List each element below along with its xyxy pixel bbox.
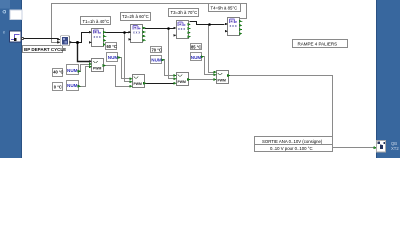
svg-text:RAMPE 4 PALIERS: RAMPE 4 PALIERS bbox=[298, 41, 338, 46]
constant block NUM1 bbox=[67, 65, 81, 75]
svg-text:SORTIE ANA 0..10V (consigne): SORTIE ANA 0..10V (consigne) bbox=[262, 139, 323, 144]
svg-text:NUM: NUM bbox=[108, 55, 119, 60]
node junction A bbox=[76, 41, 79, 44]
svg-text:40 °C: 40 °C bbox=[53, 70, 63, 75]
left input rail (blue band) bbox=[0, 0, 22, 158]
svg-text:NUM: NUM bbox=[67, 68, 78, 73]
wire NUM3 to mux2 in1 bbox=[119, 58, 132, 79]
input block empty (top-left) bbox=[10, 10, 22, 20]
wire mux2 out to mux3 in3 bbox=[145, 83, 176, 85]
node junction B1 bbox=[123, 31, 126, 34]
wire B1 out to B2 in1 bbox=[105, 32, 131, 34]
wire junction B1 down to mux2 in2 bbox=[125, 33, 132, 82]
label RAMPE 4 PALIERS bbox=[293, 40, 348, 48]
wire NUM1 to mux1 in2 bbox=[79, 65, 91, 72]
svg-text:85 °C: 85 °C bbox=[191, 45, 201, 50]
label T3 bbox=[169, 9, 199, 17]
label SORTIE ANA line2 bbox=[255, 145, 333, 152]
output block QB analog bbox=[377, 141, 386, 153]
svg-text:70 °C: 70 °C bbox=[152, 47, 162, 52]
svg-text:PWM: PWM bbox=[93, 67, 101, 71]
svg-text:0 °C: 0 °C bbox=[54, 85, 62, 90]
subsystem block PALIER3 bbox=[174, 21, 191, 39]
constant block NUM4 bbox=[151, 56, 165, 64]
pin circle of BP step output bbox=[21, 37, 23, 39]
wire mux3 out to mux4 in3 bbox=[189, 79, 216, 81]
svg-text:PWM: PWM bbox=[134, 82, 142, 86]
left rail inner edge bbox=[21, 0, 22, 158]
label T1 bbox=[81, 17, 111, 25]
input label e (top) bbox=[3, 10, 6, 13]
svg-text:PWM: PWM bbox=[178, 80, 186, 84]
wire NUM4 to mux3 in1 bbox=[163, 60, 176, 76]
wire mux1 out to mux2 in3 bbox=[105, 66, 132, 87]
label T2 bbox=[121, 13, 151, 21]
svg-text:NUM: NUM bbox=[151, 58, 162, 63]
svg-text:60 °C: 60 °C bbox=[107, 44, 117, 49]
svg-text:x x x: x x x bbox=[94, 35, 101, 39]
constant block NUM2 bbox=[67, 81, 81, 91]
wire junction A down to mux1 in1 bbox=[78, 43, 91, 62]
wire B2 out to B3 in1 bbox=[145, 28, 175, 30]
wire junction B3 down to mux4 in1 bbox=[209, 25, 216, 73]
constant block NUM5 bbox=[191, 53, 204, 61]
green arrow into output block bbox=[374, 147, 377, 149]
svg-text:NUM: NUM bbox=[191, 55, 202, 60]
wire block A out to junction and up to B1 in1 bbox=[70, 33, 91, 43]
svg-text:T3=3h à 70°C: T3=3h à 70°C bbox=[171, 10, 198, 15]
constant box 70degC bbox=[151, 47, 162, 53]
svg-text:T2=2h à 60°C: T2=2h à 60°C bbox=[122, 14, 149, 19]
palette cell highlight (top-left lighter square) bbox=[0, 0, 10, 9]
subsystem block PALIER4 bbox=[225, 18, 242, 36]
svg-text:x x x: x x x bbox=[133, 31, 140, 35]
svg-text:XT2: XT2 bbox=[391, 146, 399, 151]
label BP DEPART CYCLE bbox=[23, 46, 67, 53]
wire B3 out to B4 in1 bbox=[190, 22, 225, 25]
mux block MUX3 bbox=[174, 73, 190, 86]
svg-text:T4=9h à 85°C: T4=9h à 85°C bbox=[211, 6, 238, 11]
right output rail (blue band) bbox=[376, 0, 400, 158]
mux block MUX1 bbox=[89, 59, 105, 72]
input block BP step bbox=[10, 31, 22, 42]
node junction B2 bbox=[167, 27, 170, 30]
svg-text:x x x: x x x bbox=[178, 27, 185, 31]
constant box 40degC bbox=[53, 69, 64, 77]
label T4 bbox=[209, 4, 241, 12]
wire NUM5 to mux4 in2 bbox=[203, 57, 216, 75]
wire feedback loop from B4 out to block A in2 bbox=[52, 4, 247, 43]
mux block MUX2 bbox=[130, 75, 146, 88]
subsystem block PALIER1 bbox=[89, 29, 106, 47]
svg-text:e: e bbox=[3, 30, 6, 35]
svg-text:T1=1h à 40°C: T1=1h à 40°C bbox=[83, 19, 110, 24]
wire step to block A in1 bbox=[23, 38, 59, 40]
constant box 85degC bbox=[191, 44, 202, 50]
constant block NUM3 bbox=[107, 53, 121, 62]
constant box 60degC bbox=[106, 43, 117, 50]
block A (set-reset) bbox=[57, 36, 72, 46]
canvas background bbox=[0, 0, 400, 158]
mux block MUX4 bbox=[214, 71, 230, 84]
wire junction B2 down to mux3 in2 bbox=[169, 29, 176, 79]
svg-text:PWM: PWM bbox=[218, 79, 226, 83]
svg-text:NUM: NUM bbox=[67, 83, 78, 88]
node junction B3 bbox=[208, 23, 211, 26]
wire NUM2 to mux1 in3 bbox=[79, 67, 91, 87]
svg-text:x x x: x x x bbox=[230, 24, 237, 28]
svg-text:BP DEPART CYCLE: BP DEPART CYCLE bbox=[24, 47, 66, 52]
wire mux4 out to output QB bbox=[229, 76, 374, 148]
constant box 0degC bbox=[53, 83, 63, 91]
subsystem block PALIER2 bbox=[129, 25, 146, 43]
label SORTIE ANA line1 bbox=[255, 137, 333, 145]
right rail inner edge bbox=[376, 0, 377, 158]
svg-text:0..10 V pour 0..100 °C: 0..10 V pour 0..100 °C bbox=[270, 146, 313, 151]
